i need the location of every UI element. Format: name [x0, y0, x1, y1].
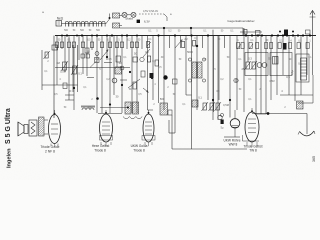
svg-text:0,3: 0,3	[248, 57, 252, 61]
svg-text:1M: 1M	[56, 61, 60, 65]
svg-text:5000: 5000	[187, 50, 193, 54]
svg-text:0,5M: 0,5M	[60, 70, 66, 74]
svg-text:Netz: Netz	[57, 17, 64, 21]
svg-text:6,3V: 6,3V	[144, 20, 150, 24]
svg-text:Triode 8: Triode 8	[94, 148, 106, 152]
svg-text:TW 8: TW 8	[249, 149, 257, 153]
svg-text:WW 8: WW 8	[229, 143, 238, 147]
svg-text:2M: 2M	[95, 57, 99, 61]
svg-text:0,2: 0,2	[145, 50, 149, 54]
svg-text:2M: 2M	[184, 39, 187, 41]
svg-text:0,1: 0,1	[152, 59, 156, 63]
svg-text:0,1: 0,1	[78, 72, 82, 76]
svg-text:0,5M: 0,5M	[223, 103, 229, 107]
svg-text:0,5M: 0,5M	[269, 81, 274, 83]
svg-text:Ingelen: Ingelen	[7, 148, 13, 168]
svg-text:Gegentaktverstärker: Gegentaktverstärker	[227, 19, 254, 23]
svg-text:S 5 G Ultra: S 5 G Ultra	[5, 108, 12, 144]
svg-text:Skala: Skala	[125, 17, 133, 21]
svg-text:500: 500	[160, 97, 165, 101]
svg-text:365: 365	[312, 156, 316, 162]
svg-text:4,5V 0,5A 4V: 4,5V 0,5A 4V	[143, 9, 158, 13]
svg-text:Triode 8: Triode 8	[133, 148, 145, 152]
svg-text:0,1: 0,1	[198, 96, 202, 100]
svg-text:2 NF 8: 2 NF 8	[45, 149, 55, 153]
svg-text:0,1µ: 0,1µ	[290, 69, 294, 75]
svg-text:0,5: 0,5	[286, 75, 290, 79]
